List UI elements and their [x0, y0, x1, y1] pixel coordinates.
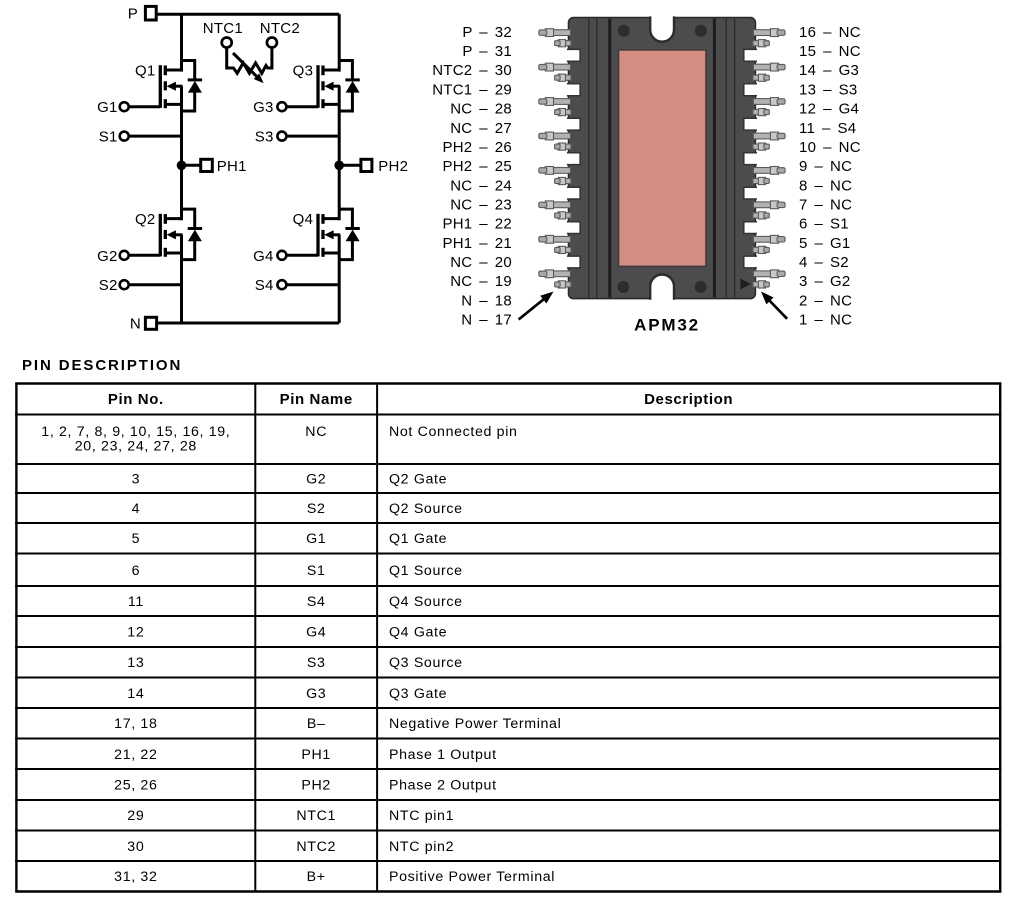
svg-text:P – 32: P – 32	[462, 24, 512, 41]
svg-text:NC – 19: NC – 19	[450, 273, 512, 290]
svg-text:S1: S1	[99, 128, 118, 145]
svg-text:Q4 Source: Q4 Source	[389, 594, 463, 610]
svg-text:S3: S3	[255, 128, 274, 145]
svg-text:G2: G2	[306, 472, 326, 488]
svg-text:14 – G3: 14 – G3	[799, 62, 859, 79]
svg-text:2 – NC: 2 – NC	[799, 292, 852, 309]
svg-text:G1: G1	[306, 531, 326, 547]
svg-text:G3: G3	[253, 99, 274, 116]
svg-text:G1: G1	[97, 99, 118, 116]
svg-text:Q1: Q1	[135, 62, 156, 79]
svg-text:Phase 2 Output: Phase 2 Output	[389, 778, 497, 794]
svg-text:6 – S1: 6 – S1	[799, 216, 849, 233]
svg-text:PH2: PH2	[301, 778, 331, 794]
svg-text:3: 3	[132, 472, 141, 488]
svg-text:15 – NC: 15 – NC	[799, 43, 861, 60]
svg-text:31, 32: 31, 32	[114, 869, 157, 885]
svg-text:5: 5	[132, 531, 141, 547]
svg-text:N: N	[130, 316, 141, 333]
svg-text:NTC1: NTC1	[203, 20, 243, 37]
svg-text:NTC pin2: NTC pin2	[389, 839, 454, 855]
svg-text:9 – NC: 9 – NC	[799, 158, 852, 175]
svg-text:NTC2: NTC2	[260, 20, 300, 37]
svg-text:7 – NC: 7 – NC	[799, 196, 852, 213]
svg-text:16 – NC: 16 – NC	[799, 24, 861, 41]
svg-text:20, 23, 24, 27, 28: 20, 23, 24, 27, 28	[75, 438, 197, 454]
svg-text:13 – S3: 13 – S3	[799, 81, 857, 98]
svg-text:NC: NC	[305, 424, 327, 440]
svg-text:Not Connected pin: Not Connected pin	[389, 424, 518, 440]
svg-text:Q3 Gate: Q3 Gate	[389, 686, 447, 702]
svg-text:S2: S2	[99, 277, 118, 294]
svg-text:B–: B–	[307, 716, 326, 732]
svg-text:12: 12	[127, 625, 144, 641]
svg-text:17, 18: 17, 18	[114, 716, 157, 732]
svg-text:8 – NC: 8 – NC	[799, 177, 852, 194]
svg-text:NTC pin1: NTC pin1	[389, 808, 454, 824]
svg-text:Q1 Source: Q1 Source	[389, 563, 463, 579]
svg-text:Q1 Gate: Q1 Gate	[389, 531, 447, 547]
svg-text:B+: B+	[307, 869, 326, 885]
svg-text:NC – 23: NC – 23	[450, 196, 512, 213]
svg-text:5 – G1: 5 – G1	[799, 235, 851, 252]
svg-text:25, 26: 25, 26	[114, 778, 157, 794]
svg-text:Pin Name: Pin Name	[280, 391, 353, 408]
svg-text:11: 11	[128, 594, 144, 610]
svg-text:NTC1: NTC1	[296, 808, 336, 824]
svg-text:S4: S4	[307, 594, 326, 610]
svg-text:NC – 27: NC – 27	[450, 120, 512, 137]
svg-text:Pin No.: Pin No.	[108, 391, 164, 408]
svg-text:NC – 24: NC – 24	[450, 177, 512, 194]
svg-text:NTC2: NTC2	[296, 839, 336, 855]
svg-text:6: 6	[132, 563, 141, 579]
svg-text:PH2 – 25: PH2 – 25	[442, 158, 512, 175]
svg-text:11 – S4: 11 – S4	[799, 120, 856, 137]
svg-text:N – 17: N – 17	[461, 311, 512, 328]
svg-text:12 – G4: 12 – G4	[799, 101, 859, 118]
svg-text:S1: S1	[307, 563, 326, 579]
svg-text:21, 22: 21, 22	[114, 747, 157, 763]
svg-text:S2: S2	[307, 501, 326, 517]
svg-text:Positive Power Terminal: Positive Power Terminal	[389, 869, 555, 885]
svg-text:N – 18: N – 18	[461, 292, 512, 309]
svg-text:PH1 – 21: PH1 – 21	[442, 235, 512, 252]
svg-text:PIN DESCRIPTION: PIN DESCRIPTION	[22, 357, 182, 374]
svg-text:3 – G2: 3 – G2	[799, 273, 851, 290]
svg-text:4: 4	[132, 501, 141, 517]
svg-text:PH1: PH1	[301, 747, 331, 763]
svg-text:G2: G2	[97, 248, 118, 265]
svg-text:P: P	[128, 6, 138, 23]
svg-text:Negative Power Terminal: Negative Power Terminal	[389, 716, 561, 732]
svg-text:PH1: PH1	[217, 158, 247, 175]
svg-text:14: 14	[127, 686, 144, 702]
svg-text:NTC2 – 30: NTC2 – 30	[432, 62, 512, 79]
svg-text:S3: S3	[307, 655, 326, 671]
svg-text:29: 29	[127, 808, 144, 824]
svg-text:Q4: Q4	[293, 211, 314, 228]
svg-text:4 – S2: 4 – S2	[799, 254, 849, 271]
svg-text:P – 31: P – 31	[462, 43, 512, 60]
svg-text:13: 13	[127, 655, 144, 671]
svg-text:NTC1 – 29: NTC1 – 29	[432, 81, 512, 98]
svg-text:APM32: APM32	[634, 316, 700, 335]
svg-text:G4: G4	[306, 625, 326, 641]
svg-text:Description: Description	[644, 391, 733, 408]
svg-text:Q3 Source: Q3 Source	[389, 655, 463, 671]
svg-text:30: 30	[127, 839, 144, 855]
svg-text:S4: S4	[255, 277, 274, 294]
svg-text:NC – 28: NC – 28	[450, 101, 512, 118]
svg-text:G4: G4	[253, 248, 274, 265]
svg-text:Q2: Q2	[135, 211, 156, 228]
svg-text:Q4 Gate: Q4 Gate	[389, 625, 447, 641]
svg-text:10 – NC: 10 – NC	[799, 139, 861, 156]
svg-text:PH1 – 22: PH1 – 22	[442, 216, 512, 233]
svg-text:PH2: PH2	[378, 158, 408, 175]
svg-text:G3: G3	[306, 686, 326, 702]
svg-text:Q2 Gate: Q2 Gate	[389, 472, 447, 488]
svg-text:Phase 1 Output: Phase 1 Output	[389, 747, 497, 763]
svg-text:NC – 20: NC – 20	[450, 254, 512, 271]
svg-text:1 – NC: 1 – NC	[799, 311, 852, 328]
svg-text:Q2 Source: Q2 Source	[389, 501, 463, 517]
svg-text:PH2 – 26: PH2 – 26	[442, 139, 512, 156]
svg-text:Q3: Q3	[293, 62, 314, 79]
